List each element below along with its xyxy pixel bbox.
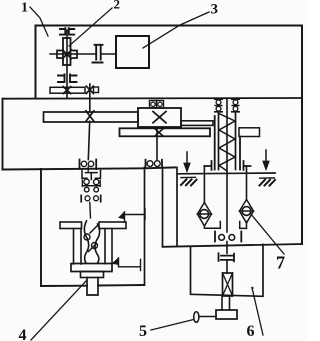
nut bracket right at ground [244,161,251,170]
gear side ticks [82,180,100,187]
nut plate right vertical [239,137,241,170]
svg-text:2: 2 [114,0,121,12]
box 1 main housing top [36,26,303,99]
clutch 2 on shaft A [58,75,65,83]
motor box 3 [116,36,149,68]
leader line 7 [250,213,284,254]
riser to right check valve [246,166,248,200]
bar gear 1 [50,87,85,93]
svg-text:7: 7 [276,253,285,273]
fixture base plate [71,264,112,272]
feed arrow left [186,152,188,163]
cross in gear box [153,112,166,123]
right edge of housing [301,26,303,245]
box 4 fixture housing [41,169,144,286]
valve box left edge [176,167,178,246]
clamp lower [119,258,141,271]
gear box with X [138,108,181,127]
nut plate left vertical [214,116,216,170]
pedestal [216,310,237,319]
shaft B vertical upper [89,84,91,112]
joint right bracket [73,51,77,59]
valve outlet right [240,222,247,229]
svg-text:1: 1 [21,1,28,16]
leader line 4 [31,281,86,340]
leader line 3 [143,12,209,48]
fixture left flange [60,222,82,229]
cross on bar1 at shaft B [86,86,93,93]
lead screw zigzag thread [219,114,235,172]
leader line 5 [151,320,194,331]
fixture stem [87,278,98,296]
valve box bottom line [163,244,303,247]
svg-text:4: 4 [19,327,27,341]
svg-text:3: 3 [211,2,219,18]
bearing atop gear box [150,101,157,109]
fixture base plate 2 [81,272,104,278]
screw bearing right [232,99,239,112]
cross on bar1 at shaft A [63,87,71,94]
vertical shaft C from gearbox [156,128,158,160]
mid box bottom edge [3,167,176,169]
bearing under screw [215,232,241,242]
gear mesh bar [83,185,100,187]
feed arrow right [265,150,267,161]
vertical coupling [221,256,234,260]
leader line 6 [252,287,263,335]
clutch top on shaft A [60,28,65,34]
universal joint cross [63,50,72,59]
ground slide line [178,172,275,175]
pump motor crossed rect [223,273,233,296]
check valve right [240,200,254,224]
workpiece tube right walls [105,229,112,264]
lead screw right rail [235,112,237,170]
box 6 pump housing [191,245,264,297]
shaft A vertical [66,30,68,99]
leader line 2 [69,8,112,46]
riser to left check valve [203,166,205,203]
leader line 1 [30,7,48,36]
bar gear 3 [120,128,211,136]
ground hatch left [181,176,196,178]
lead screw left rail [218,112,220,170]
wire top-box bottom / mid-box top edge [3,97,303,100]
handle link [199,316,216,318]
workpiece tube left walls [74,229,82,265]
mid box left edge [2,99,4,170]
joint left bracket [57,51,61,59]
horizontal shaft to motor box [50,53,116,55]
cross on bar2 [86,111,94,122]
ground hatch right [260,177,275,179]
small end bearing box on bar1 [94,87,99,93]
honing stones wavy [84,221,99,263]
shaft B vertical lower [88,121,89,159]
screw bearing left [215,99,222,112]
cone circles [84,234,90,240]
svg-text:5: 5 [139,323,147,340]
coupling on horizontal shaft [96,46,101,60]
clamp upper [125,209,146,223]
column wall V2 [162,167,164,246]
column wall V1 / box4 right edge [144,167,146,285]
handle knob [194,312,199,323]
bearing 2 on shaft C [146,160,163,168]
cross on bar3 [155,129,163,136]
gear sleeve rect on shaft A [63,38,71,65]
jaw clutch below bearing1 [82,171,101,179]
gear pair circles [84,179,89,184]
spindle into fixture [88,167,90,218]
stone diagonal [89,226,98,252]
svg-text:6: 6 [247,323,255,340]
bearing 1 on shaft B [80,160,97,170]
nut bracket left at ground [204,161,211,170]
shaft bearing3 to coupling [226,242,228,274]
check valve left [197,203,211,227]
bearing below gears [81,195,101,202]
bar gear 2 [44,112,139,122]
nut bar right [239,128,260,137]
stem below box6 [222,296,230,310]
drive bar to nut [181,121,213,126]
fixture right flange [99,222,126,229]
lead screw centre shaft [226,99,228,233]
valve outlet left [204,222,220,229]
